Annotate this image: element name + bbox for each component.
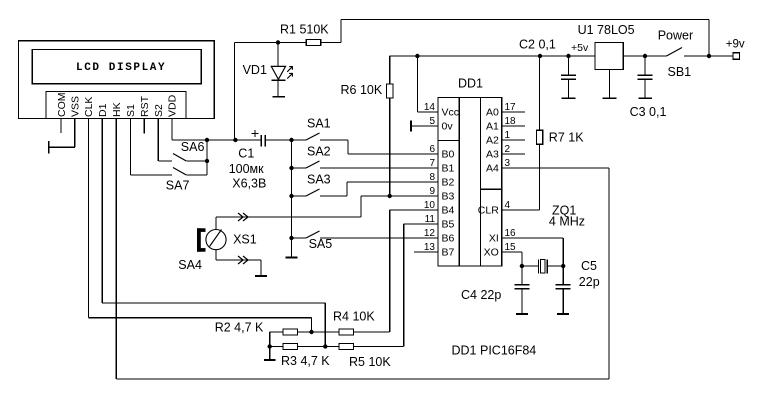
svg-text:17: 17: [505, 102, 517, 113]
svg-text:B4: B4: [442, 205, 455, 217]
svg-text:2: 2: [505, 144, 511, 155]
svg-text:U1 78LO5: U1 78LO5: [578, 23, 635, 37]
svg-text:SA5: SA5: [309, 237, 333, 251]
svg-text:16: 16: [505, 228, 517, 239]
svg-text:5: 5: [429, 116, 435, 127]
svg-text:RST: RST: [139, 95, 151, 117]
svg-text:B2: B2: [442, 177, 455, 189]
svg-text:X6,3B: X6,3B: [232, 177, 266, 191]
svg-text:Power: Power: [658, 29, 693, 43]
svg-text:12: 12: [424, 228, 436, 239]
svg-text:R4 10K: R4 10K: [333, 310, 375, 324]
svg-text:S2: S2: [153, 104, 165, 117]
svg-text:DD1 PIC16F84: DD1 PIC16F84: [452, 344, 537, 358]
svg-text:VSS: VSS: [70, 96, 82, 117]
svg-text:HK: HK: [111, 102, 123, 117]
svg-text:COM: COM: [56, 93, 68, 118]
svg-text:1: 1: [505, 130, 511, 141]
svg-text:D1: D1: [97, 103, 109, 117]
svg-text:R1 510K: R1 510K: [280, 23, 329, 37]
svg-text:XS1: XS1: [233, 233, 257, 247]
svg-text:Vcc: Vcc: [442, 107, 460, 119]
svg-text:B0: B0: [442, 149, 455, 161]
svg-text:4: 4: [505, 200, 511, 211]
svg-text:B7: B7: [442, 247, 455, 259]
svg-text:R7 1K: R7 1K: [549, 131, 584, 145]
svg-text:8: 8: [429, 172, 435, 183]
svg-text:B1: B1: [442, 163, 455, 175]
svg-text:100мк: 100мк: [229, 162, 264, 176]
svg-text:A4: A4: [486, 163, 499, 175]
svg-text:13: 13: [424, 242, 436, 253]
svg-text:C2 0,1: C2 0,1: [519, 38, 556, 52]
svg-text:A0: A0: [486, 107, 499, 119]
svg-text:R6 10K: R6 10K: [341, 83, 383, 97]
svg-text:SA2: SA2: [307, 145, 331, 159]
svg-text:18: 18: [505, 116, 517, 127]
svg-text:0v: 0v: [442, 121, 454, 133]
svg-text:R3 4,7 K: R3 4,7 K: [281, 354, 330, 368]
svg-text:B3: B3: [442, 191, 455, 203]
svg-text:22p: 22p: [579, 275, 600, 289]
svg-text:4 MHz: 4 MHz: [549, 215, 585, 229]
svg-text:VD1: VD1: [243, 63, 267, 77]
svg-text:+9v: +9v: [726, 38, 745, 50]
svg-text:6: 6: [429, 144, 435, 155]
svg-text:SB1: SB1: [668, 65, 692, 79]
svg-text:9: 9: [429, 186, 435, 197]
svg-text:C1: C1: [238, 147, 254, 161]
svg-text:A2: A2: [486, 135, 499, 147]
svg-text:7: 7: [429, 158, 435, 169]
svg-text:B6: B6: [442, 233, 455, 245]
svg-text:SA7: SA7: [166, 179, 190, 193]
svg-text:CLK: CLK: [83, 97, 95, 117]
svg-text:B5: B5: [442, 219, 455, 231]
svg-text:SA6: SA6: [181, 140, 205, 154]
svg-text:+5v: +5v: [571, 42, 589, 54]
svg-text:S1: S1: [125, 104, 137, 117]
svg-text:A3: A3: [486, 149, 499, 161]
svg-text:C3 0,1: C3 0,1: [630, 105, 667, 119]
svg-text:C5: C5: [581, 259, 597, 273]
svg-text:11: 11: [425, 214, 436, 225]
svg-text:XO: XO: [484, 247, 499, 259]
svg-text:SA1: SA1: [307, 117, 331, 131]
svg-text:DD1: DD1: [458, 77, 483, 91]
svg-text:SA3: SA3: [307, 173, 331, 187]
svg-text:VDD: VDD: [167, 94, 179, 117]
svg-text:R2 4,7 K: R2 4,7 K: [215, 321, 264, 335]
svg-text:SA4: SA4: [178, 258, 202, 272]
svg-text:CLR: CLR: [478, 205, 499, 217]
svg-text:R5 10K: R5 10K: [349, 355, 391, 369]
svg-text:LCD DISPLAY: LCD DISPLAY: [76, 62, 166, 74]
svg-text:C4 22p: C4 22p: [461, 288, 501, 302]
svg-text:3: 3: [505, 158, 511, 169]
svg-text:10: 10: [424, 200, 436, 211]
svg-text:15: 15: [505, 242, 517, 253]
svg-text:A1: A1: [486, 121, 499, 133]
svg-text:14: 14: [424, 102, 436, 113]
svg-text:XI: XI: [489, 233, 499, 245]
